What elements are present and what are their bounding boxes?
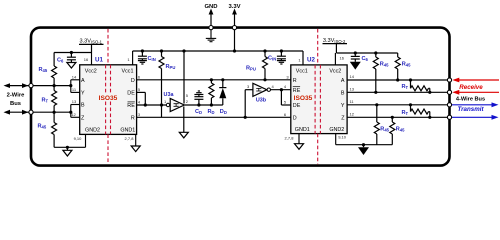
svg-text:3.3V: 3.3V — [228, 4, 240, 10]
svg-text:ISO35: ISO35 — [99, 95, 118, 102]
svg-text:CIN: CIN — [148, 56, 156, 62]
svg-text:4-Wire Bus: 4-Wire Bus — [456, 97, 485, 103]
svg-text:9,10: 9,10 — [74, 136, 83, 141]
svg-text:13: 13 — [72, 99, 77, 104]
svg-text:R45: R45 — [39, 67, 48, 73]
svg-text:R: R — [293, 78, 297, 84]
svg-text:Vcc2: Vcc2 — [85, 69, 97, 75]
svg-text:RT: RT — [402, 84, 409, 90]
svg-text:U1: U1 — [95, 57, 103, 64]
svg-text:B: B — [341, 90, 345, 96]
svg-text:RT: RT — [402, 110, 409, 116]
svg-text:D: D — [131, 78, 135, 84]
svg-text:ISO35: ISO35 — [294, 95, 313, 102]
svg-text:9,10: 9,10 — [338, 134, 347, 139]
svg-text:Vcc2: Vcc2 — [329, 69, 341, 75]
svg-text:R45: R45 — [380, 127, 389, 133]
svg-text:16: 16 — [84, 57, 89, 62]
svg-text:14: 14 — [350, 74, 355, 79]
svg-text:Bus: Bus — [10, 101, 21, 107]
svg-text:3.3VISO-2: 3.3VISO-2 — [323, 38, 346, 44]
svg-text:A: A — [81, 78, 85, 84]
svg-text:RE: RE — [293, 88, 301, 94]
svg-text:U3a: U3a — [164, 92, 175, 98]
svg-text:RPU: RPU — [246, 66, 256, 72]
svg-text:2,7,8: 2,7,8 — [285, 136, 295, 141]
svg-text:R45: R45 — [396, 127, 405, 133]
svg-text:RPU: RPU — [166, 64, 176, 70]
svg-text:B: B — [81, 103, 85, 109]
svg-text:GND1: GND1 — [295, 127, 310, 133]
svg-text:Y: Y — [341, 103, 345, 109]
svg-text:14: 14 — [72, 74, 77, 79]
svg-text:3.3VISO-1: 3.3VISO-1 — [80, 39, 103, 45]
svg-text:DE: DE — [293, 103, 301, 109]
svg-text:DD: DD — [220, 109, 227, 115]
svg-text:U3b: U3b — [256, 98, 267, 104]
svg-text:R45: R45 — [38, 124, 47, 130]
svg-text:A: A — [341, 78, 345, 84]
svg-text:2,7,8: 2,7,8 — [125, 136, 135, 141]
svg-text:R: R — [131, 116, 135, 122]
svg-text:C6: C6 — [57, 58, 64, 64]
svg-text:R45: R45 — [402, 61, 411, 67]
svg-text:GND2: GND2 — [85, 128, 100, 134]
svg-text:GND1: GND1 — [120, 128, 135, 134]
svg-text:RT: RT — [42, 98, 49, 104]
svg-text:Receive: Receive — [459, 84, 483, 91]
svg-text:DE: DE — [127, 91, 135, 97]
svg-text:13: 13 — [350, 86, 355, 91]
svg-text:RE: RE — [127, 103, 135, 109]
svg-text:Y: Y — [81, 91, 85, 97]
svg-text:U2: U2 — [307, 57, 315, 64]
svg-text:CD: CD — [195, 109, 202, 115]
svg-text:CIN: CIN — [268, 56, 276, 62]
svg-text:GND: GND — [204, 4, 217, 10]
svg-text:R45: R45 — [380, 61, 389, 67]
svg-text:Vcc1: Vcc1 — [296, 69, 308, 75]
svg-text:RD: RD — [208, 109, 215, 115]
svg-text:D: D — [293, 116, 297, 122]
svg-text:12: 12 — [350, 111, 355, 116]
svg-text:C6: C6 — [362, 56, 369, 62]
svg-text:Vcc1: Vcc1 — [122, 69, 134, 75]
svg-text:Transmit: Transmit — [457, 106, 484, 113]
svg-text:GND2: GND2 — [329, 127, 344, 133]
svg-text:2-Wire: 2-Wire — [7, 93, 25, 99]
svg-text:16: 16 — [340, 56, 345, 61]
